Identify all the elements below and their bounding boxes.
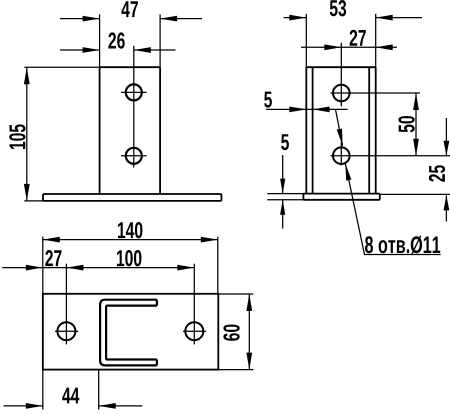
tick H6	[183, 330, 206, 332]
centerline tick H2	[121, 155, 147, 157]
base2	[303, 194, 379, 200]
label 50	[398, 116, 414, 132]
base plate	[43, 194, 221, 201]
arrow 105 top	[24, 67, 30, 84]
arrow 27c/100 shared	[66, 265, 83, 271]
leader 8otv	[345, 163, 440, 254]
arrow 27b left	[324, 44, 341, 50]
dim 140 line	[43, 239, 218, 241]
arrow 5wall left	[289, 107, 306, 113]
centerline H4 horizontal	[331, 155, 450, 157]
ext box right up	[217, 237, 219, 294]
arrow 26 right	[134, 47, 151, 53]
arrow leader2	[345, 163, 351, 180]
arrow 53 left	[289, 15, 306, 21]
centerline H5 vertical	[65, 264, 67, 345]
label 26	[108, 32, 124, 48]
label 53	[330, 0, 346, 16]
arrow 60 top	[246, 294, 252, 311]
dim 5 base lines	[282, 155, 284, 229]
plate2 outline	[306, 67, 375, 193]
label 44	[62, 388, 79, 404]
arrow 25 top	[444, 141, 450, 156]
dim 25 lines	[445, 118, 447, 222]
arrow 100 right	[177, 265, 194, 271]
label 5 base	[281, 134, 289, 150]
label 60	[223, 325, 239, 341]
ext box left up	[42, 237, 44, 294]
ext 5 base	[267, 194, 303, 200]
dim 53 lines	[284, 17, 422, 19]
label 140	[118, 222, 143, 238]
label 27b	[350, 30, 366, 46]
label 27c	[45, 250, 61, 266]
dim 44 lines	[4, 405, 143, 407]
label 100	[117, 250, 142, 266]
arrow 26 left	[83, 47, 100, 53]
arrow 47 right	[160, 16, 177, 22]
ext base right	[380, 193, 450, 195]
centerline vertical	[133, 46, 135, 168]
arrow 5base top	[280, 179, 285, 194]
ext 105 top	[24, 66, 99, 68]
hole H2	[126, 148, 142, 164]
U channel outer	[100, 300, 157, 366]
arrow 50 bottom	[413, 139, 419, 156]
centerline tick H1	[121, 91, 147, 93]
dim 5 wall line	[266, 108, 348, 110]
extension lines above plate2	[306, 14, 375, 67]
label 105	[9, 124, 25, 149]
plate outline	[100, 67, 161, 194]
arrow 50 top	[413, 93, 419, 110]
label 8otv	[365, 236, 440, 254]
arrow 5wall right	[313, 107, 330, 113]
dim 50 line	[415, 93, 417, 156]
box outline	[43, 294, 219, 370]
ext 60 lines	[218, 294, 253, 370]
centerline H3 horizontal	[331, 92, 421, 94]
arrow 53 right	[376, 15, 393, 21]
U end caps	[156, 300, 158, 366]
arrow 5base bottom	[280, 200, 285, 215]
hole H3	[333, 85, 350, 102]
dim 27b line	[301, 46, 397, 48]
arrow 27c left	[26, 265, 43, 271]
dim 27/100 line	[2, 267, 194, 269]
extension lines above plate	[100, 14, 161, 67]
arrow 47 left	[83, 16, 100, 22]
arrow 25 bottom	[444, 195, 450, 210]
arrow 27b right	[376, 44, 393, 50]
dim 60 line	[248, 294, 250, 370]
arrow 44 left	[26, 403, 43, 409]
label 25	[429, 165, 445, 182]
hole H6	[185, 322, 203, 340]
hole H5	[57, 322, 75, 340]
arrow leader1	[337, 129, 343, 146]
arrow 140 left	[43, 237, 60, 243]
centerline2 vertical	[340, 43, 342, 166]
arrow 60 bottom	[246, 353, 252, 370]
label 47	[121, 1, 138, 17]
centerline H6 vertical	[193, 264, 195, 345]
label 5 wall	[264, 92, 272, 108]
arrow 44 right	[99, 403, 116, 409]
hole H4	[333, 147, 350, 164]
ext 44 lines	[43, 370, 99, 410]
arrow 105 bottom	[24, 184, 30, 201]
leader to hole top	[336, 109, 343, 145]
dim 105 line	[26, 67, 28, 201]
dim 26 lines	[60, 49, 175, 51]
hole H1	[126, 84, 142, 100]
U channel inner	[106, 306, 157, 360]
dim 47 lines	[60, 18, 202, 20]
arrow 140 right	[201, 237, 218, 243]
tick H5	[55, 330, 78, 332]
ext 105 bottom	[24, 200, 43, 202]
